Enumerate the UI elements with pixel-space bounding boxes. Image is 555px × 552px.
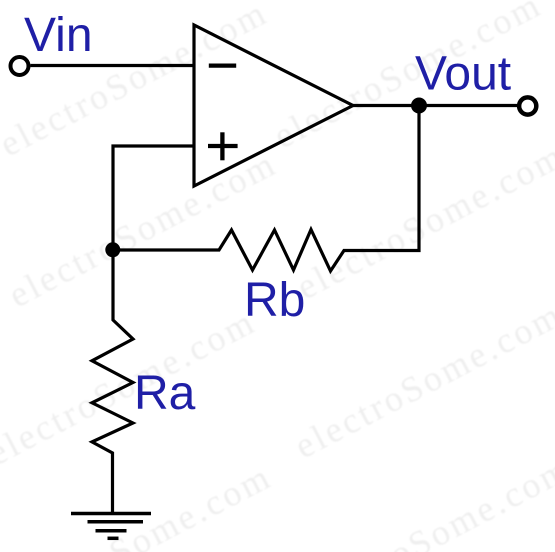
svg-text:electroSome.com: electroSome.com [290,135,555,307]
svg-text:Vin: Vin [24,9,93,62]
svg-text:electroSome.com: electroSome.com [2,143,283,315]
svg-text:Rb: Rb [244,274,305,327]
svg-text:Ra: Ra [134,367,196,420]
svg-text:electroSome.com: electroSome.com [296,448,555,552]
svg-text:Vout: Vout [415,48,511,101]
svg-text:electroSome.com: electroSome.com [0,301,262,473]
svg-text:electroSome.com: electroSome.com [0,456,278,552]
svg-text:electroSome.com: electroSome.com [288,294,555,466]
